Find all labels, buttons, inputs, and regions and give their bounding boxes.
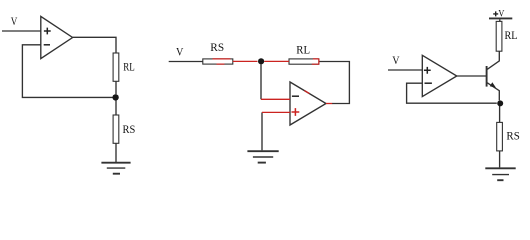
svg-text:RS: RS <box>210 40 224 54</box>
svg-text:RL: RL <box>296 42 310 56</box>
svg-text:V: V <box>176 44 184 58</box>
svg-text:V: V <box>498 9 504 19</box>
svg-text:V: V <box>11 14 18 28</box>
svg-text:RL: RL <box>123 59 135 73</box>
svg-text:RL: RL <box>505 28 518 42</box>
svg-text:RS: RS <box>123 122 136 136</box>
svg-text:V: V <box>392 53 400 67</box>
svg-text:RS: RS <box>506 129 519 143</box>
